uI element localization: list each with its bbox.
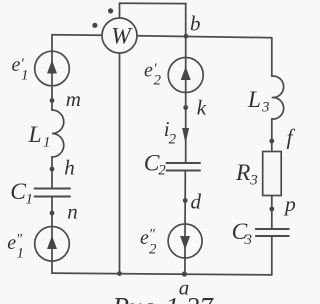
arrow of source e''1 xyxy=(47,236,57,250)
inductor L3 xyxy=(272,76,284,119)
label e''1 xyxy=(7,232,24,262)
svg-text:e: e xyxy=(7,232,16,254)
svg-text:1.27: 1.27 xyxy=(166,292,215,304)
source e''1 xyxy=(35,227,70,262)
source e'1 xyxy=(35,51,70,86)
label i2 xyxy=(164,117,177,148)
node f xyxy=(269,139,274,144)
svg-text:h: h xyxy=(64,156,75,180)
node k xyxy=(183,105,188,110)
svg-text:3: 3 xyxy=(244,232,253,248)
svg-text:2: 2 xyxy=(149,242,157,258)
label C2 xyxy=(144,150,166,178)
junction W lead on bottom rail xyxy=(117,271,122,276)
svg-text:3: 3 xyxy=(249,173,258,189)
wire wattmeter voltage-coil bypass (W top to b) xyxy=(120,3,187,18)
node n xyxy=(50,211,55,216)
polarity dot 2 of wattmeter xyxy=(92,23,97,28)
svg-text:L: L xyxy=(28,122,42,148)
node p xyxy=(269,207,274,212)
label C1 xyxy=(10,179,33,207)
svg-text:W: W xyxy=(111,24,133,50)
svg-text:b: b xyxy=(190,12,201,36)
svg-text:p: p xyxy=(283,192,296,216)
node m xyxy=(50,98,55,103)
source e''2 xyxy=(168,224,202,258)
svg-text:e: e xyxy=(140,227,149,249)
wire left branch between L1 and C1 xyxy=(51,157,53,189)
svg-text:e: e xyxy=(144,60,153,82)
svg-text:L: L xyxy=(247,87,261,113)
svg-text:″: ″ xyxy=(149,227,156,243)
svg-text:d: d xyxy=(191,190,202,214)
svg-text:3: 3 xyxy=(261,100,270,116)
arrow of source e'2 xyxy=(181,67,191,81)
label C3 xyxy=(232,219,252,248)
node d xyxy=(183,198,188,203)
svg-text:1: 1 xyxy=(21,68,29,84)
capacitor C1 xyxy=(35,189,71,197)
label e'2 xyxy=(144,60,162,89)
wire top rail left segment xyxy=(52,34,102,37)
node b xyxy=(184,34,189,39)
node a xyxy=(182,271,187,276)
source e'2 xyxy=(168,58,203,93)
wire right branch between R3 and C3 xyxy=(271,196,273,230)
label L1 xyxy=(28,122,51,150)
svg-text:e: e xyxy=(12,54,21,76)
wire top rail right segment through node b xyxy=(137,36,272,38)
svg-text:n: n xyxy=(67,200,78,224)
wattmeter W circle xyxy=(102,18,137,53)
resistor R3 xyxy=(263,152,282,196)
wire middle branch lower segment xyxy=(184,171,186,275)
arrow of source e''2 (points down) xyxy=(180,236,190,250)
svg-text:2: 2 xyxy=(169,132,177,148)
label e'1 xyxy=(12,54,29,84)
label R3 xyxy=(235,160,258,189)
svg-text:2: 2 xyxy=(154,73,162,89)
node h xyxy=(50,167,55,172)
arrow current i2 xyxy=(182,128,189,144)
wire right branch upper segment xyxy=(271,38,273,76)
polarity dot 1 of wattmeter xyxy=(108,8,113,13)
wire left branch lower segment xyxy=(51,197,53,274)
wire bottom rail xyxy=(52,273,272,275)
svg-text:R: R xyxy=(235,160,250,186)
arrow of source e'1 xyxy=(47,60,57,74)
label L3 xyxy=(247,87,270,115)
inductor L1 xyxy=(52,110,64,157)
svg-text:1: 1 xyxy=(26,192,34,208)
svg-text:1: 1 xyxy=(17,246,25,262)
wire right branch between L3 and R3 xyxy=(271,119,273,152)
wire left branch upper segment xyxy=(51,35,53,110)
svg-text:k: k xyxy=(197,96,207,120)
svg-text:Рис.: Рис. xyxy=(112,292,162,304)
svg-text:C: C xyxy=(10,179,26,205)
svg-text:1: 1 xyxy=(43,135,51,151)
wire right branch lower segment xyxy=(271,236,273,275)
wire middle branch upper segment (b down to C2) xyxy=(185,4,187,163)
caption Ris. 1.27 (cut off at bottom) xyxy=(112,292,215,304)
svg-text:m: m xyxy=(66,87,81,111)
svg-text:2: 2 xyxy=(158,163,166,179)
capacitor C2 xyxy=(167,163,201,171)
label e''2 xyxy=(140,227,157,258)
capacitor C3 xyxy=(256,229,289,236)
wire wattmeter bottom lead down to bottom rail xyxy=(119,53,121,274)
